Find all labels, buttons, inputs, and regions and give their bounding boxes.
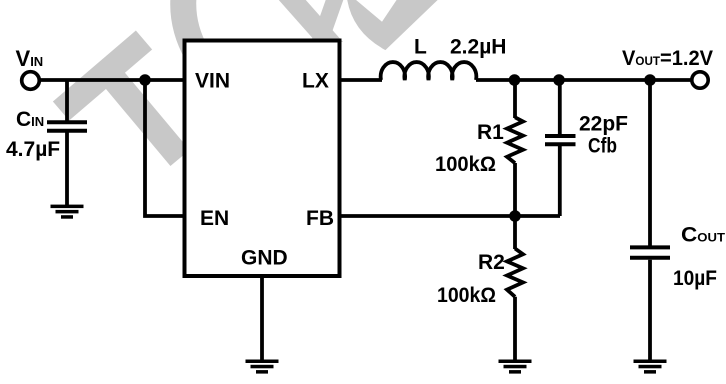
svg-text:100kΩ: 100kΩ: [435, 153, 496, 176]
capacitor CIN: [47, 122, 87, 130]
wire: R1 top: [513, 80, 517, 118]
svg-text:L: L: [414, 36, 427, 59]
wire: Cfb upper: [558, 80, 562, 134]
svg-text:FB: FB: [306, 207, 334, 230]
capacitor Cfb: [545, 136, 576, 144]
ground (IC GND): [246, 360, 279, 374]
IC U1 (buck converter) box: [185, 41, 340, 277]
terminal VOUT (output port circle): [692, 72, 708, 88]
svg-text:Cfb: Cfb: [588, 135, 617, 158]
svg-text:4.7µF: 4.7µF: [6, 138, 60, 161]
junction dot at Cfb top: [553, 74, 565, 86]
wire: inductor to VOUT terminal (node VOUT): [476, 78, 691, 82]
wire: VIN terminal to IC VIN pin (node VIN): [39, 78, 184, 82]
wire: COUT lower: [648, 260, 652, 361]
capacitor COUT: [630, 247, 670, 257]
svg-text:22pF: 22pF: [579, 112, 628, 135]
svg-text:10µF: 10µF: [673, 267, 717, 290]
wire: LX pin to inductor: [339, 78, 382, 82]
watermark stroke (gray curved band): [183, 0, 197, 54]
resistor R2: [507, 249, 523, 297]
svg-text:100kΩ: 100kΩ: [437, 284, 496, 307]
svg-text:LX: LX: [302, 69, 329, 92]
svg-text:R1: R1: [477, 121, 504, 144]
watermark stroke (gray steep, up-right): [311, 0, 344, 42]
wire: GND pin down: [260, 276, 264, 361]
wire: R2 bottom: [513, 297, 517, 361]
ground (COUT): [634, 360, 667, 374]
wire: R2 top from FB node: [513, 216, 517, 249]
svg-text:2.2µH: 2.2µH: [450, 36, 506, 59]
junction dot at FB node: [509, 210, 521, 222]
ground (CIN): [51, 205, 84, 219]
wire: FB pin line (node FB): [339, 214, 560, 218]
junction dot at COUT top: [644, 74, 656, 86]
svg-text:R2: R2: [478, 251, 505, 274]
wire: COUT upper: [648, 80, 652, 246]
junction dot at R1 top: [509, 74, 521, 86]
wire: EN tie to VIN node: [145, 80, 184, 216]
svg-text:GND: GND: [241, 247, 288, 270]
terminal VIN (input port circle): [22, 72, 40, 90]
wire: Cfb lower to FB node: [558, 146, 562, 216]
watermark letter T (gray, rotated): [61, 40, 180, 158]
watermark stroke (gray diagonal, down-right): [277, 0, 343, 42]
watermark chevron (gray V with notch): [347, 0, 440, 50]
resistor R1: [507, 117, 523, 163]
wire: R1 bottom to FB node: [513, 163, 517, 216]
ground (R2): [499, 360, 532, 374]
junction dot at VIN/EN node: [139, 74, 151, 86]
wire: CIN branch upper: [65, 80, 69, 121]
wire: CIN branch lower: [65, 133, 69, 207]
svg-text:EN: EN: [200, 207, 229, 230]
inductor L: [381, 62, 477, 80]
svg-text:VIN: VIN: [195, 69, 230, 92]
